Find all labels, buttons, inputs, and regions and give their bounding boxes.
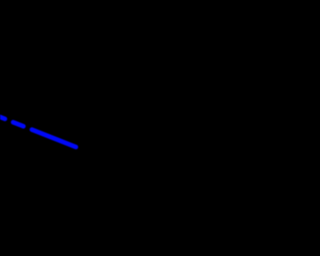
wire — [32, 130, 76, 147]
wire — [0, 114, 5, 119]
wire — [13, 122, 23, 126]
